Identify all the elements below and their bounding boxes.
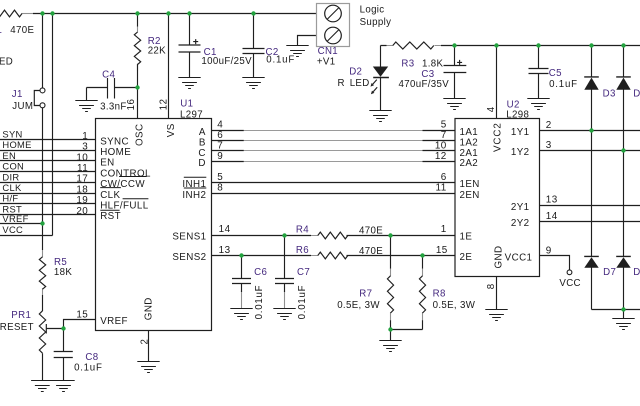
svg-text:D: D: [633, 267, 640, 278]
svg-text:H/F: H/F: [2, 193, 18, 204]
svg-text:R: R: [338, 78, 345, 89]
svg-text:0.01uF: 0.01uF: [254, 285, 265, 320]
svg-text:SYN: SYN: [2, 129, 22, 140]
svg-text:5: 5: [441, 120, 447, 131]
svg-text:12: 12: [435, 151, 447, 162]
svg-text:U1: U1: [180, 99, 193, 110]
svg-text:GND: GND: [144, 297, 155, 320]
svg-text:D: D: [633, 89, 640, 100]
svg-text:14: 14: [546, 211, 558, 222]
svg-text:C6: C6: [254, 267, 267, 278]
svg-text:3.3nF: 3.3nF: [100, 101, 127, 112]
svg-text:1EN: 1EN: [460, 179, 480, 190]
svg-text:4: 4: [217, 120, 223, 131]
svg-text:1E: 1E: [460, 232, 473, 243]
svg-text:2E: 2E: [460, 252, 473, 263]
svg-text:VCC2: VCC2: [493, 122, 504, 152]
svg-text:RST: RST: [100, 211, 121, 222]
svg-text:C8: C8: [85, 352, 98, 363]
svg-text:2EN: 2EN: [460, 190, 480, 201]
svg-text:0.5E, 3W: 0.5E, 3W: [433, 300, 476, 311]
svg-text:A: A: [199, 127, 206, 138]
svg-text:100uF/25V: 100uF/25V: [201, 56, 252, 67]
svg-text:15: 15: [76, 310, 88, 321]
svg-text:CON: CON: [2, 161, 24, 172]
svg-text:EN: EN: [100, 158, 114, 169]
svg-text:SENS2: SENS2: [172, 252, 206, 263]
svg-text:OSC: OSC: [134, 124, 145, 146]
svg-text:11: 11: [436, 183, 447, 194]
svg-text:B: B: [199, 137, 206, 148]
svg-text:20: 20: [76, 206, 88, 217]
svg-text:R7: R7: [359, 289, 372, 300]
svg-text:C4: C4: [102, 69, 115, 80]
svg-text:10: 10: [76, 152, 88, 163]
svg-text:CLK: CLK: [100, 190, 120, 201]
svg-text:3: 3: [546, 140, 552, 151]
svg-text:0.1uF: 0.1uF: [74, 363, 103, 374]
svg-text:HLF/FULL: HLF/FULL: [100, 201, 149, 212]
svg-text:0.1uF: 0.1uF: [549, 79, 578, 90]
svg-text:D3: D3: [603, 89, 616, 100]
svg-text:2Y1: 2Y1: [511, 202, 530, 213]
svg-text:VCC1: VCC1: [505, 253, 533, 264]
svg-text:15: 15: [436, 245, 448, 256]
svg-text:6: 6: [217, 130, 223, 141]
svg-text:R6: R6: [296, 245, 309, 256]
svg-text:9: 9: [546, 245, 552, 256]
svg-text:VCC: VCC: [2, 224, 23, 235]
svg-text:C5: C5: [549, 68, 562, 79]
svg-text:18K: 18K: [54, 267, 72, 278]
svg-text:SYNC: SYNC: [100, 136, 129, 147]
svg-text:C7: C7: [297, 267, 310, 278]
svg-text:18: 18: [76, 184, 88, 195]
svg-text:1A2: 1A2: [460, 137, 479, 148]
svg-text:HOME: HOME: [2, 139, 31, 150]
svg-text:PR1: PR1: [11, 310, 31, 321]
svg-text:INH1: INH1: [182, 179, 206, 190]
svg-text:1A1: 1A1: [460, 127, 479, 138]
svg-text:J1: J1: [12, 89, 23, 100]
svg-text:22K: 22K: [148, 46, 166, 57]
svg-text:INH2: INH2: [182, 190, 206, 201]
svg-text:EN: EN: [2, 150, 16, 161]
svg-text:1Y2: 1Y2: [511, 147, 530, 158]
svg-text:VREF: VREF: [2, 213, 28, 224]
svg-text:0.1uF: 0.1uF: [266, 55, 295, 66]
svg-text:VCC: VCC: [559, 278, 581, 289]
svg-text:470uF/35V: 470uF/35V: [399, 79, 450, 90]
svg-text:VREF: VREF: [100, 316, 128, 327]
svg-text:+V1: +V1: [317, 56, 336, 67]
svg-text:ED: ED: [0, 57, 13, 68]
svg-text:Supply: Supply: [360, 17, 392, 28]
svg-text:14: 14: [219, 224, 231, 235]
svg-text:R3: R3: [401, 58, 414, 69]
svg-text:1: 1: [441, 224, 447, 235]
svg-text:6: 6: [441, 172, 447, 183]
svg-text:2: 2: [546, 120, 552, 131]
svg-text:CN1: CN1: [318, 46, 338, 57]
svg-text:1: 1: [82, 131, 88, 142]
svg-text:7: 7: [441, 130, 447, 141]
svg-text:D7: D7: [603, 267, 616, 278]
svg-text:9: 9: [217, 151, 223, 162]
svg-text:0.01uF: 0.01uF: [297, 285, 308, 320]
svg-text:DIR: DIR: [2, 171, 19, 182]
svg-text:0.5E, 3W: 0.5E, 3W: [337, 300, 380, 311]
svg-text:LED: LED: [350, 78, 370, 89]
svg-text:11: 11: [77, 163, 88, 174]
svg-text:SENS1: SENS1: [172, 232, 206, 243]
svg-text:Logic: Logic: [360, 5, 385, 16]
svg-text:1Y1: 1Y1: [511, 127, 530, 138]
svg-text:4: 4: [486, 106, 497, 112]
svg-text:1.8K: 1.8K: [422, 58, 444, 69]
svg-text:CLK: CLK: [2, 182, 22, 193]
svg-text:R4: R4: [296, 225, 309, 236]
svg-text:2Y2: 2Y2: [511, 218, 530, 229]
svg-text:2: 2: [139, 339, 150, 345]
svg-text:2A2: 2A2: [460, 158, 479, 169]
svg-text:470E: 470E: [10, 25, 34, 36]
svg-text:5: 5: [217, 172, 223, 183]
svg-text:L298: L298: [506, 109, 529, 120]
svg-text:R8: R8: [433, 289, 446, 300]
svg-text:D: D: [198, 158, 205, 169]
svg-text:3: 3: [82, 142, 88, 153]
svg-text:13: 13: [546, 195, 558, 206]
svg-text:470E: 470E: [359, 225, 383, 236]
svg-text:8: 8: [486, 283, 497, 289]
svg-text:1: 1: [0, 25, 2, 36]
svg-text:VS: VS: [166, 123, 177, 137]
svg-text:16: 16: [126, 99, 137, 111]
svg-text:19: 19: [76, 195, 88, 206]
svg-text:HOME: HOME: [100, 147, 131, 158]
svg-text:470E: 470E: [359, 246, 383, 257]
svg-text:D2: D2: [349, 67, 362, 78]
svg-text:JUM: JUM: [12, 101, 33, 112]
svg-text:17: 17: [76, 174, 88, 185]
svg-text:CONTROL: CONTROL: [100, 168, 151, 179]
svg-text:PRESET: PRESET: [0, 322, 34, 333]
svg-text:13: 13: [219, 245, 231, 256]
svg-text:CW/CCW: CW/CCW: [100, 179, 145, 190]
svg-text:L297: L297: [180, 109, 203, 120]
svg-text:8: 8: [217, 183, 223, 194]
svg-text:12: 12: [158, 99, 169, 111]
svg-text:GND: GND: [494, 246, 505, 269]
